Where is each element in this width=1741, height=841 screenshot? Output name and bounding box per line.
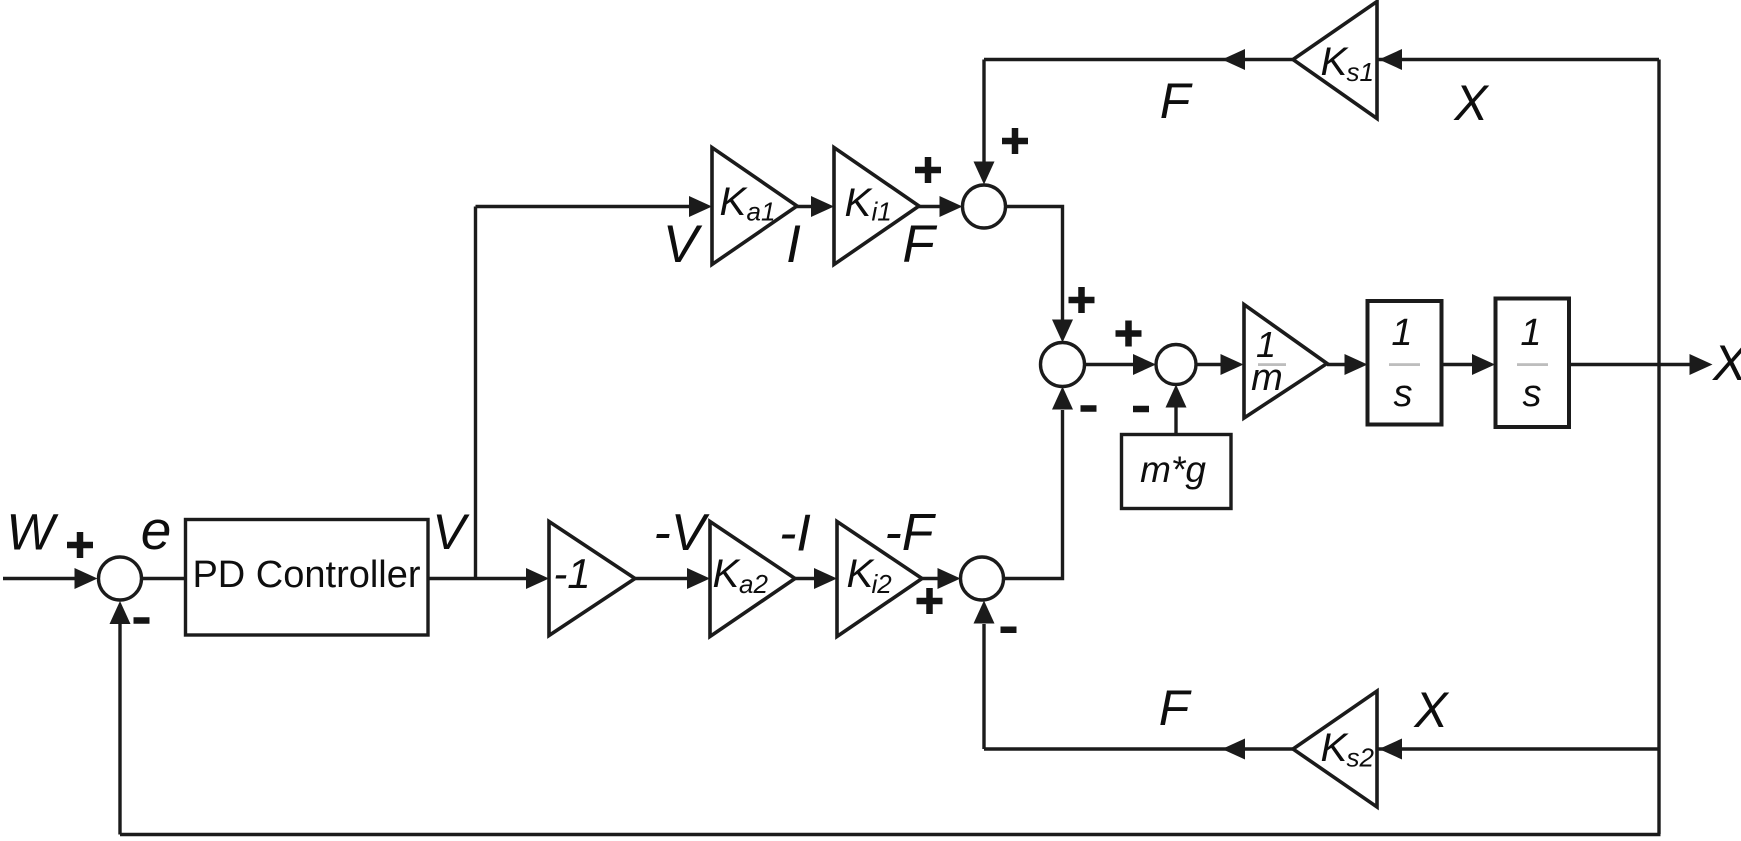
svg-text:s2: s2	[1347, 743, 1375, 773]
svg-text:K: K	[845, 181, 874, 225]
svg-text:F: F	[1160, 73, 1193, 129]
svg-text:1: 1	[1391, 312, 1412, 354]
svg-text:K: K	[713, 552, 742, 596]
svg-text:m*g: m*g	[1140, 449, 1206, 490]
svg-text:1: 1	[1520, 312, 1541, 354]
svg-text:F: F	[902, 215, 937, 274]
svg-text:PD Controller: PD Controller	[192, 554, 420, 596]
svg-text:X: X	[1712, 335, 1741, 391]
svg-text:-I: -I	[779, 505, 811, 563]
svg-text:s1: s1	[1347, 57, 1374, 87]
svg-text:-V: -V	[654, 504, 710, 562]
svg-text:F: F	[1159, 680, 1192, 736]
svg-text:m: m	[1251, 357, 1283, 399]
svg-text:e: e	[141, 499, 172, 561]
svg-text:X: X	[1453, 75, 1489, 131]
svg-text:X: X	[1413, 682, 1449, 738]
svg-text:a1: a1	[747, 197, 776, 227]
svg-text:i2: i2	[872, 569, 893, 599]
svg-text:V: V	[432, 504, 470, 560]
svg-text:K: K	[1321, 726, 1350, 770]
svg-text:s: s	[1394, 373, 1413, 415]
svg-text:s: s	[1523, 373, 1542, 415]
svg-text:K: K	[1321, 40, 1350, 84]
svg-text:K: K	[720, 180, 749, 224]
svg-text:-1: -1	[553, 550, 590, 597]
svg-text:W: W	[6, 504, 59, 561]
svg-text:-F: -F	[884, 504, 936, 562]
svg-text:a2: a2	[739, 569, 768, 599]
svg-text:I: I	[786, 215, 801, 274]
svg-text:i1: i1	[872, 197, 892, 227]
svg-text:V: V	[663, 215, 703, 274]
